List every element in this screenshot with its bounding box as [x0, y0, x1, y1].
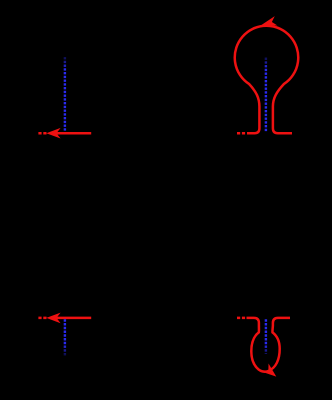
contour (bottom-right): loop wrapped around branch point	[247, 318, 291, 372]
contour line (top-left)	[50, 132, 91, 135]
branch cut (bottom-left)	[64, 319, 66, 355]
dashed continuation (bottom-left)	[38, 317, 46, 320]
dashed continuation (top-right)	[237, 132, 246, 135]
arrowhead on circle (top-right)	[260, 16, 278, 30]
arrowhead (top-left)	[46, 128, 60, 139]
contour line (bottom-left)	[50, 317, 91, 320]
branch cut (top-right)	[265, 58, 267, 133]
dashed continuation (bottom-right)	[237, 317, 246, 320]
branch cut (top-left)	[64, 57, 66, 133]
arrowhead on loop (bottom-right)	[262, 363, 280, 380]
dashed continuation (top-left)	[38, 132, 46, 135]
branch cut (bottom-right)	[265, 319, 267, 354]
contour (top-right): keyhole wrapped around branch point	[235, 26, 299, 133]
arrowhead (bottom-left)	[46, 313, 60, 324]
